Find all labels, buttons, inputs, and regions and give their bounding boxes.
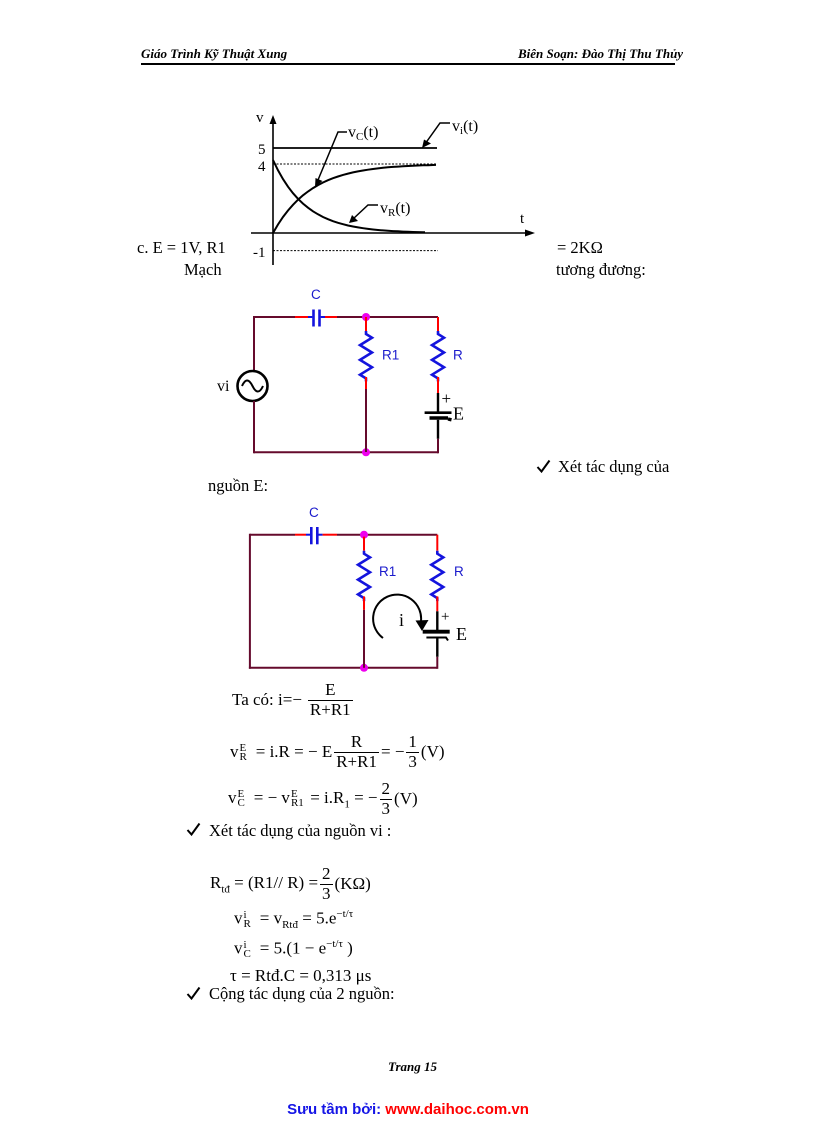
leader arrow to vi line bbox=[422, 123, 450, 148]
svg-text:+: + bbox=[441, 609, 449, 625]
svg-text:t: t bbox=[520, 211, 525, 227]
wire node A to top-right bbox=[366, 316, 438, 318]
svg-text:R: R bbox=[454, 564, 464, 579]
wire left side upper bbox=[253, 316, 255, 371]
node A junction dot bbox=[362, 313, 370, 321]
CIRCUIT 1 bbox=[200, 285, 490, 470]
text: = 2KΩ bbox=[557, 238, 603, 258]
vi(t) level line at 5 bbox=[273, 147, 437, 149]
wire battery to bottom-right bbox=[437, 439, 439, 454]
svg-text:i: i bbox=[399, 610, 404, 630]
wire red above R1 bbox=[365, 317, 367, 331]
curve vR decaying bbox=[273, 160, 425, 232]
wire R1 to node B bbox=[365, 389, 367, 452]
bullet: Cộng tác dụng của 2 nguồn: bbox=[186, 986, 201, 1000]
formula: vRE = i.R = -E R/(R+R1) = -1/3 (V) bbox=[230, 733, 445, 771]
battery E bottom lead bbox=[436, 639, 438, 657]
svg-text:R: R bbox=[453, 348, 463, 363]
formula: vCE = -vR1E = i.R1 = -2/3 (V) bbox=[228, 780, 418, 818]
dotted line at -1 bbox=[273, 250, 438, 252]
text: nguồn E: bbox=[208, 476, 268, 496]
svg-text:C: C bbox=[311, 287, 321, 302]
svg-text:E: E bbox=[453, 404, 464, 424]
wire R1 to node B bbox=[363, 610, 365, 668]
formula: vRi = vRtd = 5.e^-t/τ bbox=[234, 908, 353, 931]
text: Mạch bbox=[184, 260, 222, 280]
x axis bbox=[251, 230, 535, 237]
battery plate short thick bbox=[430, 418, 452, 420]
svg-text:-1: -1 bbox=[253, 245, 266, 261]
dotted line at 4 bbox=[273, 163, 436, 165]
node A junction dot bbox=[360, 531, 368, 539]
header rule bbox=[141, 63, 675, 65]
header left: Giáo Trình Kỹ Thuật Xung bbox=[141, 46, 287, 62]
formula: Ta có: i = -E/(R+R1) bbox=[232, 681, 355, 719]
formula: τ = Rtđ.C = 0,313 μs bbox=[230, 966, 371, 986]
wire bottom bbox=[249, 667, 437, 669]
formula: vCi = 5.(1-e^-t/τ) bbox=[234, 938, 353, 959]
svg-text:vC(t): vC(t) bbox=[348, 124, 378, 143]
svg-text:v: v bbox=[256, 110, 264, 126]
curve vC rising bbox=[273, 165, 436, 233]
battery E top lead bbox=[437, 393, 439, 413]
svg-text:+: + bbox=[442, 389, 452, 408]
battery E top lead bbox=[436, 611, 438, 631]
footer: Sưu tầm bởi bbox=[0, 1101, 816, 1118]
capacitor C bbox=[311, 527, 317, 544]
wire top-left to capacitor bbox=[254, 316, 295, 318]
wire red above R1 bbox=[363, 537, 365, 551]
y axis bbox=[270, 115, 277, 265]
leader arrow to vR curve bbox=[349, 205, 378, 223]
svg-text:R1: R1 bbox=[382, 348, 399, 363]
wire red left of C bbox=[295, 316, 308, 318]
formula: Rtd = (R1//R) = 2/3 (KΩ) bbox=[210, 865, 371, 903]
svg-text:R1: R1 bbox=[379, 564, 396, 579]
wire red left of C bbox=[295, 534, 306, 536]
CIRCUIT 2 bbox=[200, 500, 490, 690]
svg-text:vR(t): vR(t) bbox=[380, 200, 410, 219]
svg-text:vi(t): vi(t) bbox=[452, 118, 478, 137]
wire red right of C bbox=[321, 316, 325, 318]
header right: Biên Soạn bbox=[518, 46, 683, 62]
resistor R1 bbox=[358, 551, 370, 601]
battery plate long bbox=[425, 411, 452, 414]
leader arrow to vC curve bbox=[315, 132, 347, 187]
footer: Trang 15 bbox=[388, 1059, 437, 1075]
battery E bottom lead bbox=[437, 420, 439, 439]
wire capacitor to node A bbox=[337, 534, 364, 536]
wire red above R bbox=[436, 535, 438, 551]
node B junction dot bbox=[362, 448, 370, 456]
resistor R1 bbox=[360, 331, 372, 381]
wire capacitor to node A bbox=[337, 316, 366, 318]
battery plate long thick bbox=[423, 630, 450, 634]
wire red right of C bbox=[318, 534, 322, 536]
wire red above R bbox=[437, 317, 439, 331]
wire red below R1 bbox=[363, 596, 365, 610]
svg-text:C: C bbox=[309, 505, 319, 520]
capacitor C bbox=[314, 310, 320, 327]
wire red below R1 bbox=[365, 377, 367, 389]
node B junction dot bbox=[360, 664, 368, 672]
svg-text:E: E bbox=[456, 624, 467, 644]
wire top-left to capacitor bbox=[250, 534, 295, 536]
text row: c. E = 1V, R1 bbox=[137, 238, 226, 258]
loop current arrow bbox=[373, 595, 428, 638]
wire battery to bottom-right bbox=[436, 657, 438, 669]
graph of vC(t), vR(t), vi(t) bbox=[240, 105, 550, 280]
wire bottom bbox=[254, 451, 438, 453]
source vi bbox=[238, 371, 268, 401]
bullet: Xét tác dụng của nguồn vi : bbox=[186, 822, 201, 836]
bullet: Xét tác dụng của bbox=[536, 459, 551, 473]
battery plate short thin bbox=[426, 638, 448, 641]
wire left side bbox=[249, 534, 251, 669]
wire red below R bbox=[437, 377, 439, 393]
wire red below R bbox=[436, 596, 438, 611]
wire left side lower bbox=[253, 401, 255, 453]
resistor R bbox=[432, 331, 444, 381]
resistor R bbox=[431, 551, 443, 601]
text: tương đương: bbox=[556, 260, 646, 280]
wire node A to top-right bbox=[364, 534, 437, 536]
svg-text:vi: vi bbox=[217, 378, 230, 395]
svg-text:4: 4 bbox=[258, 159, 266, 175]
svg-text:5: 5 bbox=[258, 142, 266, 158]
